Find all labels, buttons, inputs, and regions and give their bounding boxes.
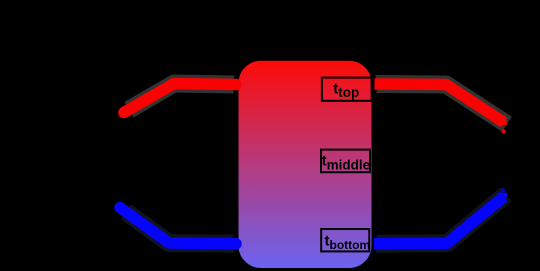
- node t_top sensor box: [322, 78, 372, 101]
- tank: stratified storage vessel: [236, 58, 374, 270]
- wire halo (jpeg glow) red left: [129, 84, 236, 110]
- wire halo (jpeg glow) blue right: [374, 195, 506, 244]
- wire: cold return pipe left (blue): [120, 208, 236, 244]
- wire halo (jpeg glow) blue left: [126, 212, 236, 244]
- node t_bottom sensor box: [321, 229, 369, 251]
- wire: hot outlet pipe right (red): [375, 84, 505, 123]
- arrowhead red: [497, 115, 507, 126]
- wire: cold outlet pipe right (blue): [374, 197, 504, 244]
- arrowhead blue: [496, 193, 508, 203]
- arrowhead red tip dot: [502, 129, 506, 133]
- wire halo (jpeg glow) red right: [375, 84, 508, 124]
- arrowhead blue tip dot: [501, 188, 505, 192]
- node t_middle sensor box: [321, 150, 370, 173]
- wire: hot supply pipe left (red): [124, 84, 236, 113]
